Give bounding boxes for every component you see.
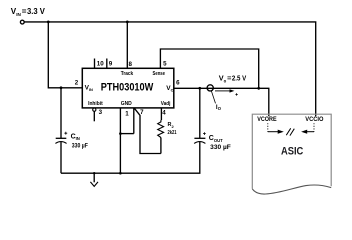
svg-text:2: 2: [75, 80, 79, 87]
svg-text:10: 10: [97, 61, 104, 68]
svg-text:IN: IN: [89, 87, 93, 92]
svg-text:PTH03010W: PTH03010W: [101, 82, 154, 94]
svg-text:ASIC: ASIC: [281, 145, 303, 157]
svg-text:5: 5: [163, 61, 167, 68]
svg-text:Sense: Sense: [153, 71, 166, 77]
svg-text:GND: GND: [121, 101, 132, 107]
svg-text:4: 4: [162, 110, 166, 117]
svg-text:Inhibit: Inhibit: [88, 101, 103, 107]
svg-text:IN: IN: [76, 136, 80, 141]
svg-text:2k21: 2k21: [168, 130, 177, 136]
svg-text:Track: Track: [121, 71, 134, 77]
svg-text:VCORE: VCORE: [257, 116, 276, 123]
svg-text:6: 6: [176, 80, 180, 87]
svg-text:7: 7: [140, 109, 144, 116]
svg-text:3.3 V: 3.3 V: [27, 7, 45, 16]
svg-text:O: O: [171, 87, 174, 92]
svg-text:2.5 V: 2.5 V: [232, 74, 246, 83]
svg-text:1: 1: [125, 110, 129, 117]
svg-text:Vadj: Vadj: [161, 101, 171, 107]
svg-text:330 µF: 330 µF: [210, 144, 231, 151]
svg-text:OUT: OUT: [214, 138, 223, 143]
svg-text:8: 8: [129, 61, 133, 68]
svg-text:330 µF: 330 µF: [72, 143, 88, 150]
svg-text:3: 3: [99, 109, 103, 116]
svg-text:=: =: [227, 74, 231, 83]
svg-text:9: 9: [109, 61, 113, 68]
svg-text:IN: IN: [16, 12, 21, 17]
svg-text:VCCIO: VCCIO: [305, 116, 323, 123]
